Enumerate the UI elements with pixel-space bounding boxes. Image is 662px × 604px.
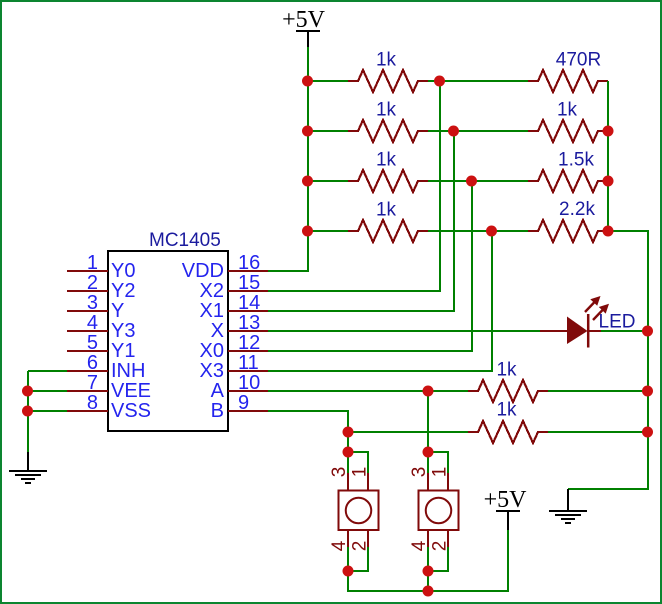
svg-text:4: 4 [409,540,430,551]
wire SW1 top tie pins 3-1 [348,452,368,473]
junction (647.5,331) [642,326,653,337]
svg-text:Y3: Y3 [111,320,135,342]
pushbutton SW1 [329,467,379,552]
LED cathode bar [587,314,590,348]
wire 2.2k out to right rail and down to ground [568,231,648,489]
wire SW2 pin3 drop [427,452,429,473]
wire row1 mid [428,80,528,82]
SW2 button cap [426,498,452,524]
SW2 pin stubs [428,473,448,547]
svg-text:MC1405: MC1405 [149,230,221,251]
svg-text:6: 6 [87,352,98,374]
pushbutton SW2 [409,467,459,552]
wire R10 to right rail [548,431,648,433]
svg-text:13: 13 [238,312,260,334]
svg-text:A: A [211,380,225,402]
junction (491.5,231) [486,226,497,237]
SW1 pin stubs [348,473,368,547]
junction (647.5,432) [642,427,653,438]
ground left [9,452,47,483]
wire pin9 B row down to button SW1 [268,411,348,473]
LED leads [540,330,601,332]
svg-text:VSS: VSS [111,400,151,422]
svg-text:X3: X3 [200,360,224,382]
U1 body outline [108,251,228,431]
power +5V top [282,7,326,47]
junction (428,571) [423,566,434,577]
wire VSS to ground rail [28,410,67,412]
svg-text:VEE: VEE [111,380,151,402]
resistor R7 1.5k [528,170,608,192]
svg-text:5: 5 [87,332,98,354]
svg-text:1k: 1k [496,360,517,381]
IC U1 MC1405 [67,230,268,431]
svg-text:4: 4 [87,312,98,334]
resistor R1 1k [348,70,428,92]
SW1 body [339,491,379,531]
svg-text:3: 3 [87,292,98,314]
wire SW1 bottom tie pins 4-2 [348,547,368,571]
svg-text:X2: X2 [200,280,224,302]
junction (348,571) [343,566,354,577]
svg-text:INH: INH [111,360,145,382]
power +5V bottom [484,487,528,530]
LED emission arrow 1 [585,301,596,313]
SW2 body [419,491,459,531]
wire row2 left [308,130,348,132]
junction (608,231) [603,226,614,237]
U1 right pin stubs pins 16-9 [228,271,268,411]
wire SW2 top tie pins 3-1 [428,452,448,473]
svg-text:X: X [211,320,224,342]
resistor R9 1k [468,380,548,402]
svg-text:Y0: Y0 [111,260,135,282]
svg-text:3: 3 [409,467,430,478]
junction (647.5,391) [642,386,653,397]
svg-text:LED: LED [599,312,636,333]
junction (348,432) [343,427,354,438]
svg-text:1k: 1k [376,100,397,121]
wire right column vertical [607,81,609,231]
wire row2 to pin14 X1 [268,131,454,311]
wire row3 left [308,180,348,182]
svg-text:1.5k: 1.5k [558,150,594,171]
svg-text:1k: 1k [376,150,397,171]
junction (307.5,231) [302,226,313,237]
svg-text:+5V: +5V [484,487,528,513]
wire SW2 bottom tie pins 4-2 [428,547,448,571]
svg-text:1k: 1k [496,400,517,421]
junction (453.5,131) [448,126,459,137]
svg-text:X1: X1 [200,300,224,322]
svg-text:15: 15 [238,272,260,294]
svg-text:10: 10 [238,372,260,394]
junction (348,452) [343,447,354,458]
wire row A down to button SW2 [427,391,429,452]
junction (428,591) [423,586,434,597]
ground right [549,489,587,523]
resistor R5 470R [528,70,608,92]
junction (307.5,131) [302,126,313,137]
U1 pin numbers and pin names [87,252,260,422]
svg-text:7: 7 [87,372,98,394]
wire row3 to pin12 X0 [268,181,472,351]
wire LED cathode to right rail [601,330,648,332]
wire VEE to ground rail [28,390,67,392]
svg-text:2.2k: 2.2k [559,199,595,220]
svg-text:X0: X0 [200,340,224,362]
wire SW2 pin4 drop to bus [427,547,429,591]
resistor R3 1k [348,170,428,192]
wire +5V stem to VDD pin16 [268,47,308,271]
wire pin10 A row [268,390,468,392]
junction (439.5,81) [434,76,445,87]
junction (471.5,181) [466,176,477,187]
junction (27.5,391) [22,386,33,397]
svg-text:3: 3 [329,467,350,478]
svg-text:1k: 1k [376,200,397,221]
junction (307.5,181) [302,176,313,187]
svg-text:Y1: Y1 [111,340,135,362]
SW1 button cap [346,498,372,524]
junction (608,131) [603,126,614,137]
wire row4 mid [428,230,528,232]
svg-text:8: 8 [87,392,98,414]
svg-text:9: 9 [238,392,249,414]
svg-text:4: 4 [329,540,350,551]
svg-text:1k: 1k [557,100,578,121]
U1 left pin stubs pins 1-8 [67,271,108,411]
svg-text:12: 12 [238,332,260,354]
wire row B branch [348,431,468,433]
wire pin13 X to LED anode [268,330,540,332]
wire row1 to pin15 X2 [268,81,440,291]
svg-text:1: 1 [87,252,98,274]
svg-text:VDD: VDD [182,260,224,282]
LED emission arrow 2 [593,309,604,321]
svg-text:+5V: +5V [282,7,326,33]
resistor R4 1k [348,220,428,242]
wire row2 mid [428,130,528,132]
LED D1 [540,296,635,348]
LED anode triangle [567,317,588,345]
resistor R8 2.2k [528,220,608,242]
wire INH to ground rail [28,371,67,452]
svg-text:16: 16 [238,252,260,274]
svg-text:1k: 1k [376,50,397,71]
wire row4 left [308,230,348,232]
svg-text:11: 11 [238,352,259,374]
wire row3 mid [428,180,528,182]
wire bottom bus to +5V [348,530,508,591]
wire R9 to right rail [548,390,648,392]
resistor R10 1k [468,421,548,443]
wire row1 left [308,80,348,82]
svg-text:14: 14 [238,292,260,314]
resistor R6 1k [528,120,608,142]
svg-text:B: B [211,400,224,422]
svg-text:Y: Y [111,300,124,322]
svg-text:Y2: Y2 [111,280,135,302]
wire row4 to pin11 X3 [268,231,492,371]
resistor R2 1k [348,120,428,142]
svg-text:470R: 470R [556,50,601,71]
junction (428,452) [423,447,434,458]
junction (608,181) [603,176,614,187]
svg-text:2: 2 [87,272,98,294]
junction (27.5,411) [22,406,33,417]
junction (428,391) [423,386,434,397]
junction (307.5,81) [302,76,313,87]
svg-text:1: 1 [430,467,451,478]
svg-text:1: 1 [350,467,371,478]
